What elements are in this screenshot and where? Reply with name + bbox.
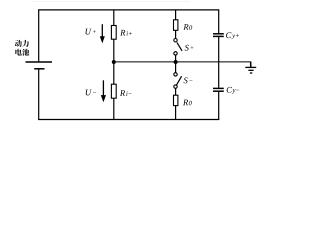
battery B1 动力电池 positive plate xyxy=(26,61,53,63)
battery B1 negative plate xyxy=(34,68,44,70)
label U- xyxy=(86,90,96,96)
label 动力电池 (power battery) xyxy=(15,40,29,56)
switch S- blade xyxy=(176,76,181,85)
faint artifact line top xyxy=(32,1,190,3)
label Ri- xyxy=(120,90,132,96)
wire S branch top xyxy=(175,10,177,20)
wire left branch lower (battery -) xyxy=(38,69,40,120)
wire middle rail xyxy=(114,61,251,63)
resistor R0 top body xyxy=(174,20,178,31)
capacitor Cy+ plates xyxy=(213,34,224,37)
arrow U+ current direction xyxy=(100,24,105,43)
wire R branch mid rail to Ri- xyxy=(113,62,115,84)
capacitor Cy- plates xyxy=(213,88,224,91)
node junction dot mid rail / R branch xyxy=(112,60,116,64)
wire R0+ to S+ xyxy=(175,30,177,38)
wire R branch bottom xyxy=(113,98,115,119)
ground symbol xyxy=(245,67,256,73)
wire Cy branch middle xyxy=(218,37,220,88)
label U+ xyxy=(85,29,95,35)
wire top rail xyxy=(38,9,219,11)
label Cy+ xyxy=(226,32,239,39)
label R0 top xyxy=(183,24,192,30)
wire R branch Ri+ to mid rail xyxy=(113,39,115,62)
wire R branch top xyxy=(113,10,115,26)
wire Cy branch top xyxy=(218,10,220,33)
node junction dot mid rail / S branch xyxy=(174,60,178,64)
wire ground stub xyxy=(250,62,252,68)
switch S+ blade xyxy=(177,42,182,51)
wire S+ to mid rail xyxy=(175,55,177,62)
wire R0- to bottom rail xyxy=(175,106,177,120)
wire left branch upper (battery +) xyxy=(38,10,40,62)
label R0 bottom xyxy=(183,100,192,106)
label S+ xyxy=(185,45,194,51)
label Cy- xyxy=(227,87,240,94)
resistor Ri- body xyxy=(111,84,116,98)
resistor Ri+ body xyxy=(111,26,116,40)
label S- xyxy=(184,78,193,84)
wire bottom rail xyxy=(38,119,219,121)
wire mid rail to S- xyxy=(175,62,177,73)
switch S- bottom contact xyxy=(174,85,177,88)
label Ri+ xyxy=(120,30,132,36)
switch S+ top contact xyxy=(174,39,177,42)
switch S- top contact xyxy=(174,73,177,76)
switch S+ bottom contact xyxy=(174,52,177,55)
arrow U- current direction xyxy=(101,80,106,102)
resistor R0 bottom body xyxy=(174,95,178,105)
wire S- to R0- xyxy=(175,88,177,95)
wire Cy branch bottom xyxy=(218,92,220,120)
